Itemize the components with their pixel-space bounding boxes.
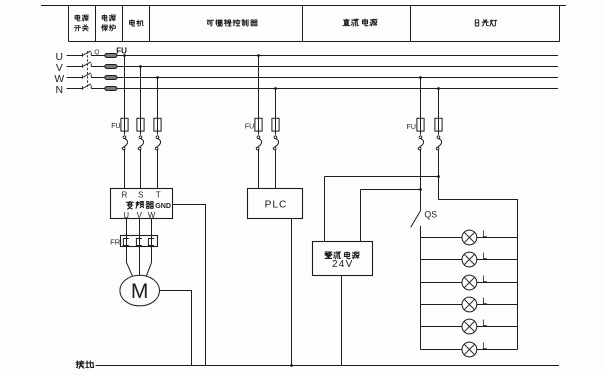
rectifier power supply box 整流电源 24V — [313, 242, 373, 276]
svg-text:QS: QS — [424, 209, 437, 219]
header table frame — [41, 6, 566, 42]
svg-text:U: U — [56, 52, 64, 63]
wires from buses down to PLC fuses — [259, 56, 276, 135]
svg-text:M: M — [131, 280, 149, 303]
inverter GND terminal label — [155, 202, 171, 210]
svg-text:V: V — [56, 63, 63, 74]
wires from buses down to inverter fuses — [125, 56, 158, 135]
breaker contacts (inverter branch) — [122, 136, 160, 189]
svg-text:L: L — [482, 274, 487, 284]
wire rectifier to earth bus — [341, 276, 343, 366]
knife switch QS — [411, 209, 438, 227]
wires inverter outputs to motor — [127, 219, 152, 277]
svg-text:FU: FU — [116, 47, 127, 56]
header label: power protection column — [101, 15, 115, 31]
fuses FU (lamp branch) — [407, 118, 443, 131]
breaker contacts (PLC branch) — [256, 136, 278, 189]
wire PLC output to earth bus — [290, 219, 293, 367]
svg-text:L: L — [482, 229, 487, 239]
main switch Q (4-pole knife switch with linkage) — [67, 49, 105, 90]
header label: motor column — [130, 20, 144, 27]
fuses FU (PLC branch) — [245, 118, 279, 131]
svg-text:L: L — [482, 251, 487, 261]
svg-text:FU: FU — [111, 123, 120, 130]
header label: fluorescent lamp column — [475, 20, 497, 27]
node taps for lamp/rectifier branch — [419, 76, 440, 90]
svg-text:T: T — [156, 190, 161, 199]
motor M1 — [120, 275, 160, 306]
branch node to rectifier right stub — [361, 188, 422, 191]
svg-text:N: N — [56, 85, 64, 96]
rectifier stub wires — [325, 177, 361, 242]
wires from buses down to lamp-branch fuses — [421, 78, 439, 135]
lamp L1 — [462, 229, 487, 245]
inverter name label (CJK) — [126, 201, 153, 209]
svg-text:L: L — [482, 318, 487, 328]
lamp rung 4 wire — [421, 304, 518, 306]
inverter output terminals U V W — [123, 211, 156, 220]
branch node to rectifier left stub — [325, 175, 440, 178]
svg-text:Q: Q — [94, 49, 99, 56]
inverter input terminals R S T — [122, 190, 161, 199]
svg-text:24V: 24V — [332, 259, 354, 270]
phase labels U V W N — [54, 52, 64, 96]
lamp rung 1 wire — [421, 237, 518, 239]
lamp rung 2 wire — [421, 259, 518, 261]
svg-text:FU: FU — [407, 124, 416, 131]
wire motor frame to earth bus — [160, 291, 192, 366]
earth bus wire — [96, 365, 560, 367]
lamp L6 — [462, 341, 487, 357]
node taps for inverter branch — [123, 54, 159, 79]
lamp rung 5 wire — [421, 326, 518, 328]
lamp L4 — [462, 296, 487, 312]
lamp L2 — [462, 251, 487, 267]
breaker contacts (lamp branch) — [418, 136, 441, 211]
svg-text:FU: FU — [245, 124, 254, 131]
thermal relay FR — [110, 236, 157, 247]
lamp rung 3 wire — [421, 282, 518, 284]
svg-text:L: L — [482, 296, 487, 306]
lamp ladder right rail — [439, 200, 518, 350]
svg-text:S: S — [138, 190, 143, 199]
line fuses FU (4 cartridge fuses) — [105, 47, 127, 91]
PLC box — [248, 189, 303, 219]
svg-text:R: R — [122, 190, 128, 199]
lamp ladder left rail — [420, 226, 422, 350]
svg-text:W: W — [54, 74, 64, 85]
fuses FU (inverter branch) — [111, 118, 161, 131]
header label: power switch column — [74, 15, 88, 31]
node taps for PLC branch — [257, 54, 277, 90]
bus wires U V W N — [117, 56, 558, 89]
svg-text:GND: GND — [155, 202, 171, 210]
earth label 接地 — [76, 361, 93, 369]
inverter U1 (frequency converter) box — [111, 189, 173, 219]
svg-text:PLC: PLC — [265, 200, 288, 211]
header label: DC power column — [343, 19, 377, 26]
lamp L5 — [462, 318, 487, 334]
lamp L3 — [462, 274, 487, 290]
svg-text:L: L — [482, 341, 487, 351]
lamp rung 6 wire — [421, 349, 518, 351]
header label: programmable controller column — [207, 19, 258, 26]
ground wire from inverter GND to earth bus — [173, 205, 206, 366]
svg-text:FR: FR — [110, 237, 121, 246]
